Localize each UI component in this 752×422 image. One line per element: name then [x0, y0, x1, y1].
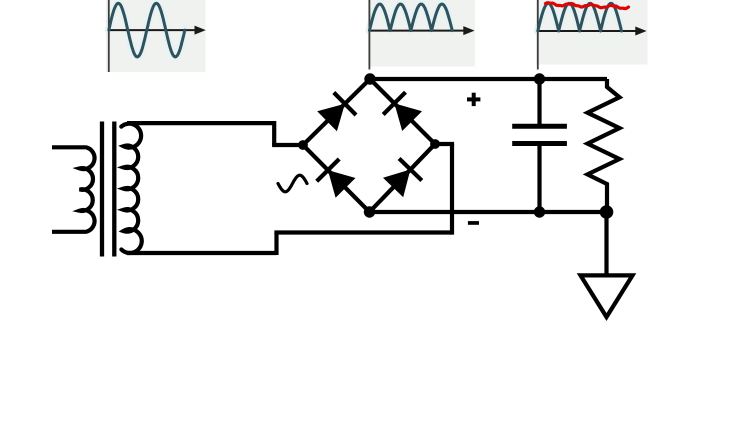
wire secondary top step down	[272, 121, 276, 145]
transformer T1 primary top lead	[52, 145, 85, 149]
rectified waveform x-axis arrowhead	[463, 26, 474, 35]
transformer T1 secondary winding	[121, 124, 141, 253]
input waveform x-axis	[109, 29, 200, 31]
filtered full-wave humps	[538, 3, 622, 31]
diode D4 cathode bar	[399, 159, 422, 181]
node junction dot capacitor top	[534, 73, 545, 84]
wire DC+ top rail	[370, 77, 607, 81]
filtered waveform plot background	[536, 0, 648, 65]
diode D3 cathode bar	[317, 159, 340, 181]
rectified waveform x-axis	[369, 30, 468, 32]
node junction dot resistor bottom	[600, 205, 614, 219]
bridge arm left-top	[303, 79, 370, 145]
wire AC riser to bridge right node	[450, 144, 454, 235]
diode D2 triangle	[394, 103, 422, 131]
capacitor C1 top lead	[537, 79, 541, 126]
resistor R1	[588, 79, 620, 212]
input waveform plot background	[106, 0, 206, 72]
input waveform halo	[109, 3, 185, 57]
wire lower AC run	[274, 230, 452, 234]
wire secondary bottom lead	[127, 251, 277, 255]
filtered waveform x-axis arrowhead	[635, 27, 646, 36]
diode D3 triangle	[328, 170, 356, 198]
filtered waveform x-axis	[538, 30, 641, 32]
diode D2 cathode bar	[383, 92, 405, 114]
rectified waveform plot background	[368, 0, 475, 67]
node junction dot bridge bottom	[364, 206, 375, 217]
wire secondary bottom step up	[274, 233, 278, 256]
+ label	[467, 93, 480, 106]
capacitor C1 bottom plate	[512, 141, 567, 146]
wire to bridge right node	[435, 142, 454, 146]
bridge arm right-top	[370, 79, 435, 144]
transformer T1 primary bottom lead	[52, 230, 85, 234]
node junction dot bridge right	[430, 139, 440, 149]
AC source squiggle	[278, 175, 307, 192]
wire DC- bottom rail	[370, 210, 607, 214]
transformer T1 core line right	[112, 122, 116, 257]
node junction dot capacitor bottom	[534, 206, 545, 217]
bridge arm left-bottom	[303, 145, 370, 212]
ground symbol	[581, 275, 633, 317]
node junction dot bridge left	[298, 140, 308, 150]
rectified waveform halo	[369, 4, 452, 31]
rectified waveform y-axis	[368, 0, 370, 70]
input waveform y-axis	[108, 0, 110, 72]
wire secondary top lead	[127, 121, 274, 125]
node junction dot bridge top	[364, 73, 375, 84]
filtered waveform halo	[538, 3, 622, 31]
bridge arm right-bottom	[370, 144, 436, 212]
transformer T1 primary winding	[80, 147, 95, 232]
capacitor C1 bottom lead	[537, 144, 541, 213]
DC ripple trace (red)	[546, 3, 629, 9]
rectified full-wave humps	[369, 4, 452, 31]
transformer T1 core line left	[100, 122, 104, 257]
ground lead	[604, 212, 608, 275]
diode D4 triangle	[383, 170, 410, 198]
input waveform x-axis arrowhead	[195, 26, 206, 35]
diode D1 triangle	[317, 104, 345, 132]
- label	[468, 221, 479, 225]
wire to bridge left node	[272, 143, 303, 147]
capacitor C1 top plate	[512, 124, 567, 129]
filtered waveform y-axis	[537, 0, 539, 70]
diode D1 cathode bar	[334, 93, 356, 116]
input sine wave	[109, 3, 185, 57]
